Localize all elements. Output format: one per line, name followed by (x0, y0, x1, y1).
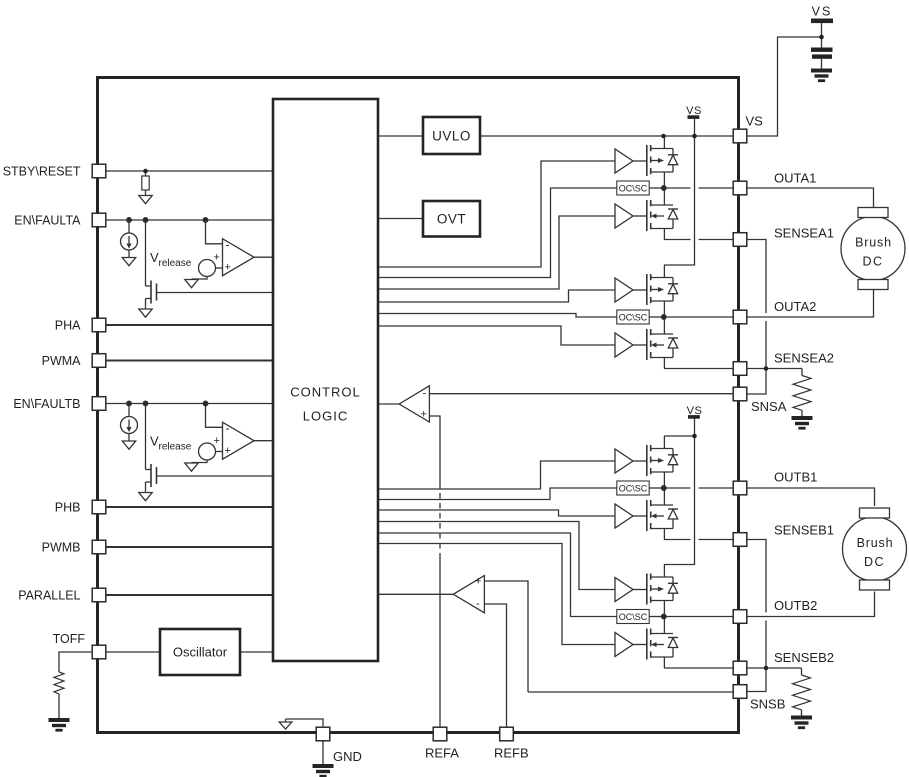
svg-text:REFA: REFA (425, 746, 459, 761)
svg-text:PARALLEL: PARALLEL (18, 589, 80, 603)
svg-text:LOGIC: LOGIC (303, 409, 348, 424)
svg-text:PHA: PHA (55, 319, 81, 333)
svg-text:OUTB2: OUTB2 (774, 598, 817, 613)
svg-text:+: + (475, 576, 481, 588)
svg-text:VS: VS (812, 5, 833, 19)
svg-text:CONTROL: CONTROL (290, 385, 361, 400)
svg-text:OUTA1: OUTA1 (774, 171, 816, 186)
svg-text:TOFF: TOFF (53, 632, 86, 646)
svg-text:GND: GND (333, 749, 362, 764)
svg-text:+: + (421, 409, 427, 421)
svg-text:OUTB1: OUTB1 (774, 470, 817, 485)
svg-text:OVT: OVT (437, 212, 466, 227)
svg-text:REFB: REFB (494, 746, 529, 761)
svg-text:SENSEA1: SENSEA1 (774, 226, 834, 241)
svg-text:SENSEA2: SENSEA2 (774, 351, 834, 366)
svg-text:-: - (476, 598, 480, 610)
svg-text:PWMA: PWMA (42, 354, 82, 368)
svg-text:Oscillator: Oscillator (173, 645, 228, 660)
svg-text:UVLO: UVLO (432, 129, 471, 144)
svg-text:SNSB: SNSB (750, 697, 785, 712)
svg-text:SENSEB1: SENSEB1 (774, 523, 834, 538)
svg-text:-: - (423, 388, 427, 400)
svg-text:PHB: PHB (55, 501, 81, 515)
svg-text:EN\FAULTA: EN\FAULTA (14, 214, 81, 228)
svg-text:PWMB: PWMB (42, 541, 81, 555)
svg-text:OUTA2: OUTA2 (774, 299, 816, 314)
svg-text:STBY\RESET: STBY\RESET (3, 165, 81, 179)
svg-text:SENSEB2: SENSEB2 (774, 650, 834, 665)
svg-text:SNSA: SNSA (751, 399, 787, 414)
svg-text:VS: VS (746, 114, 764, 129)
svg-text:EN\FAULTB: EN\FAULTB (13, 397, 80, 411)
